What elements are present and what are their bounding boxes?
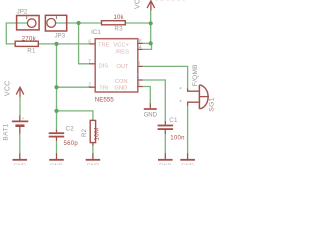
- svg-text:TRI: TRI: [99, 86, 109, 92]
- capacitor C2: [49, 130, 64, 141]
- ground below IC pin1: [144, 103, 157, 109]
- ground below battery: [13, 153, 28, 160]
- svg-text:C2: C2: [65, 125, 74, 132]
- ground below speaker: [180, 153, 195, 160]
- pin R2 bottom: [92, 143, 94, 146]
- wire C2 bottom to ground: [56, 141, 58, 155]
- pin 8 VCC stub: [138, 42, 143, 44]
- junction node TRI: [54, 85, 58, 89]
- svg-text:GND: GND: [181, 164, 194, 165]
- pin 5 CON stub: [138, 79, 143, 81]
- svg-text:VCC: VCC: [135, 0, 142, 9]
- svg-text:100n: 100n: [170, 135, 185, 141]
- capacitor C1: [158, 121, 174, 134]
- svg-text:1: 1: [138, 81, 141, 87]
- resistor R3: [102, 21, 126, 25]
- ground below C2: [49, 153, 64, 160]
- svg-text:GND: GND: [13, 164, 26, 165]
- svg-text:3: 3: [138, 61, 141, 67]
- wire VCC arrow to battery top: [19, 97, 21, 116]
- connector JP3: [45, 15, 66, 31]
- wire node to R2 top: [57, 111, 93, 120]
- svg-text:2: 2: [88, 82, 91, 88]
- svg-text:DIS: DIS: [99, 63, 109, 69]
- IC1 NE555 body: [95, 39, 138, 92]
- wire GND pin1 down: [142, 87, 150, 104]
- junction node R1-TRE column: [54, 42, 58, 46]
- svg-text:JP2: JP2: [17, 8, 28, 15]
- wire CON pin5 to C1: [142, 80, 165, 121]
- svg-text:R2: R2: [81, 128, 88, 136]
- junction node VCC pins 8-4: [149, 41, 153, 45]
- wire R1 right to TRE pin6: [38, 43, 89, 45]
- svg-text:6: 6: [88, 39, 91, 45]
- wire C1 bottom to ground: [164, 134, 166, 155]
- speaker pin marks: [180, 87, 182, 89]
- svg-text:CON: CON: [115, 79, 128, 85]
- wire OUT pin3 to speaker: [142, 66, 187, 88]
- connector JP2: [17, 16, 39, 30]
- svg-text:GND: GND: [86, 164, 99, 165]
- pin 4 RES stub: [138, 48, 143, 50]
- svg-text:NE555: NE555: [95, 97, 114, 104]
- svg-text:GND: GND: [50, 164, 63, 165]
- svg-text:R1: R1: [27, 47, 36, 54]
- svg-text:R3: R3: [114, 26, 123, 33]
- junction node R2: [54, 109, 58, 113]
- svg-text:/RES: /RES: [115, 49, 129, 55]
- wire battery bottom to ground: [19, 133, 21, 153]
- junction node R3-VCC: [149, 21, 153, 25]
- svg-text:BAT1: BAT1: [3, 123, 10, 140]
- pin 6 TRE stub: [89, 43, 95, 45]
- junction node JP3-R3-DIS: [77, 21, 81, 25]
- svg-text:GND: GND: [114, 86, 127, 92]
- pin R2 top: [92, 119, 94, 122]
- svg-text:F/QMB: F/QMB: [192, 64, 199, 86]
- svg-text:7: 7: [88, 59, 91, 65]
- wire R3 right to VCC rail: [125, 22, 150, 24]
- svg-text:JP3: JP3: [54, 32, 65, 39]
- svg-text:270k: 270k: [22, 36, 37, 42]
- svg-text:VCC+: VCC+: [113, 43, 129, 49]
- resistor R1: [15, 41, 38, 46]
- svg-text:VCC: VCC: [4, 80, 11, 96]
- svg-text:GND: GND: [144, 112, 158, 118]
- power VCC arrow top right: [147, 1, 155, 11]
- ground below C1: [158, 153, 173, 160]
- wire JP2 to R1 left: [6, 23, 27, 44]
- svg-text:C1: C1: [169, 117, 178, 124]
- svg-text:4: 4: [139, 45, 142, 51]
- svg-text:IC1: IC1: [91, 29, 101, 36]
- power VCC arrow bottom left: [16, 87, 24, 97]
- wire node to DIS pin7: [79, 23, 89, 64]
- wire JP3 to R3 left through node: [56, 22, 102, 24]
- svg-text:560p: 560p: [64, 141, 79, 147]
- wire speaker bottom to ground: [187, 106, 189, 155]
- ground below R2: [86, 153, 101, 160]
- speaker SG1: [188, 85, 209, 109]
- battery BAT1: [12, 116, 28, 134]
- svg-text:10k: 10k: [113, 15, 124, 21]
- wire pin4 /RES up to VCC node: [142, 43, 151, 49]
- wire pin8 to VCC node: [142, 42, 151, 44]
- svg-text:TRE: TRE: [98, 43, 110, 49]
- pin 3 OUT stub: [138, 65, 143, 67]
- svg-text:5: 5: [137, 75, 140, 81]
- svg-text:GND: GND: [159, 164, 172, 165]
- svg-text:SG1: SG1: [208, 97, 215, 112]
- pin 1 GND stub: [138, 86, 143, 88]
- wire VCC rail down to pin8 node: [150, 10, 152, 43]
- wire R2 bottom to ground: [92, 146, 94, 155]
- wire node to TRI pin2: [57, 86, 89, 88]
- decorative cut-off text top edge: [155, 0, 185, 1]
- wire node column to C2: [56, 44, 58, 130]
- svg-text:OUT: OUT: [116, 64, 129, 70]
- pin 2 TRI stub: [89, 86, 95, 88]
- pin 7 DIS stub: [89, 63, 95, 65]
- svg-text:+: +: [22, 117, 25, 122]
- resistor R2 vertical: [90, 120, 95, 142]
- svg-text:10M: 10M: [94, 127, 101, 140]
